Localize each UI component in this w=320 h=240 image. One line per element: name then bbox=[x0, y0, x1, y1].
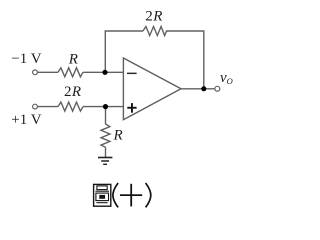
svg-text:2R: 2R bbox=[64, 84, 81, 100]
wire bbox=[83, 71, 123, 73]
input terminal +1V bbox=[33, 104, 38, 109]
op-amp U1 bbox=[123, 58, 181, 120]
resistor R1 bbox=[58, 68, 83, 77]
wire bbox=[83, 106, 123, 108]
op-amp minus pin label bbox=[127, 73, 137, 75]
svg-text:R: R bbox=[113, 128, 123, 144]
resistor R shunt vertical bbox=[101, 124, 110, 147]
svg-text:+1 V: +1 V bbox=[11, 112, 41, 128]
resistor 2R feedback bbox=[143, 27, 167, 36]
wire bbox=[38, 106, 59, 108]
node B junction (non-inverting input) bbox=[103, 104, 108, 109]
wire to ground bbox=[105, 147, 107, 157]
wire to shunt resistor bbox=[105, 107, 107, 124]
caption figure(ten): char tu outer box bbox=[94, 184, 111, 206]
caption char ten bbox=[120, 184, 142, 207]
resistor 2R input bbox=[58, 102, 83, 111]
svg-text:−1 V: −1 V bbox=[11, 51, 41, 67]
caption close paren bbox=[146, 183, 151, 207]
input terminal -1V bbox=[33, 70, 38, 75]
wire feedback right bbox=[166, 31, 204, 89]
wire output bbox=[181, 88, 215, 90]
svg-text:2R: 2R bbox=[145, 9, 162, 25]
wire bbox=[38, 71, 59, 73]
node output junction bbox=[201, 86, 206, 91]
output terminal vO bbox=[215, 86, 220, 91]
wire feedback left vertical bbox=[105, 31, 143, 72]
svg-text:R: R bbox=[68, 51, 78, 67]
caption open paren bbox=[113, 183, 118, 207]
op-amp plus pin label bbox=[127, 103, 136, 113]
node A junction (inverting input) bbox=[102, 70, 107, 75]
ground bbox=[98, 158, 112, 165]
